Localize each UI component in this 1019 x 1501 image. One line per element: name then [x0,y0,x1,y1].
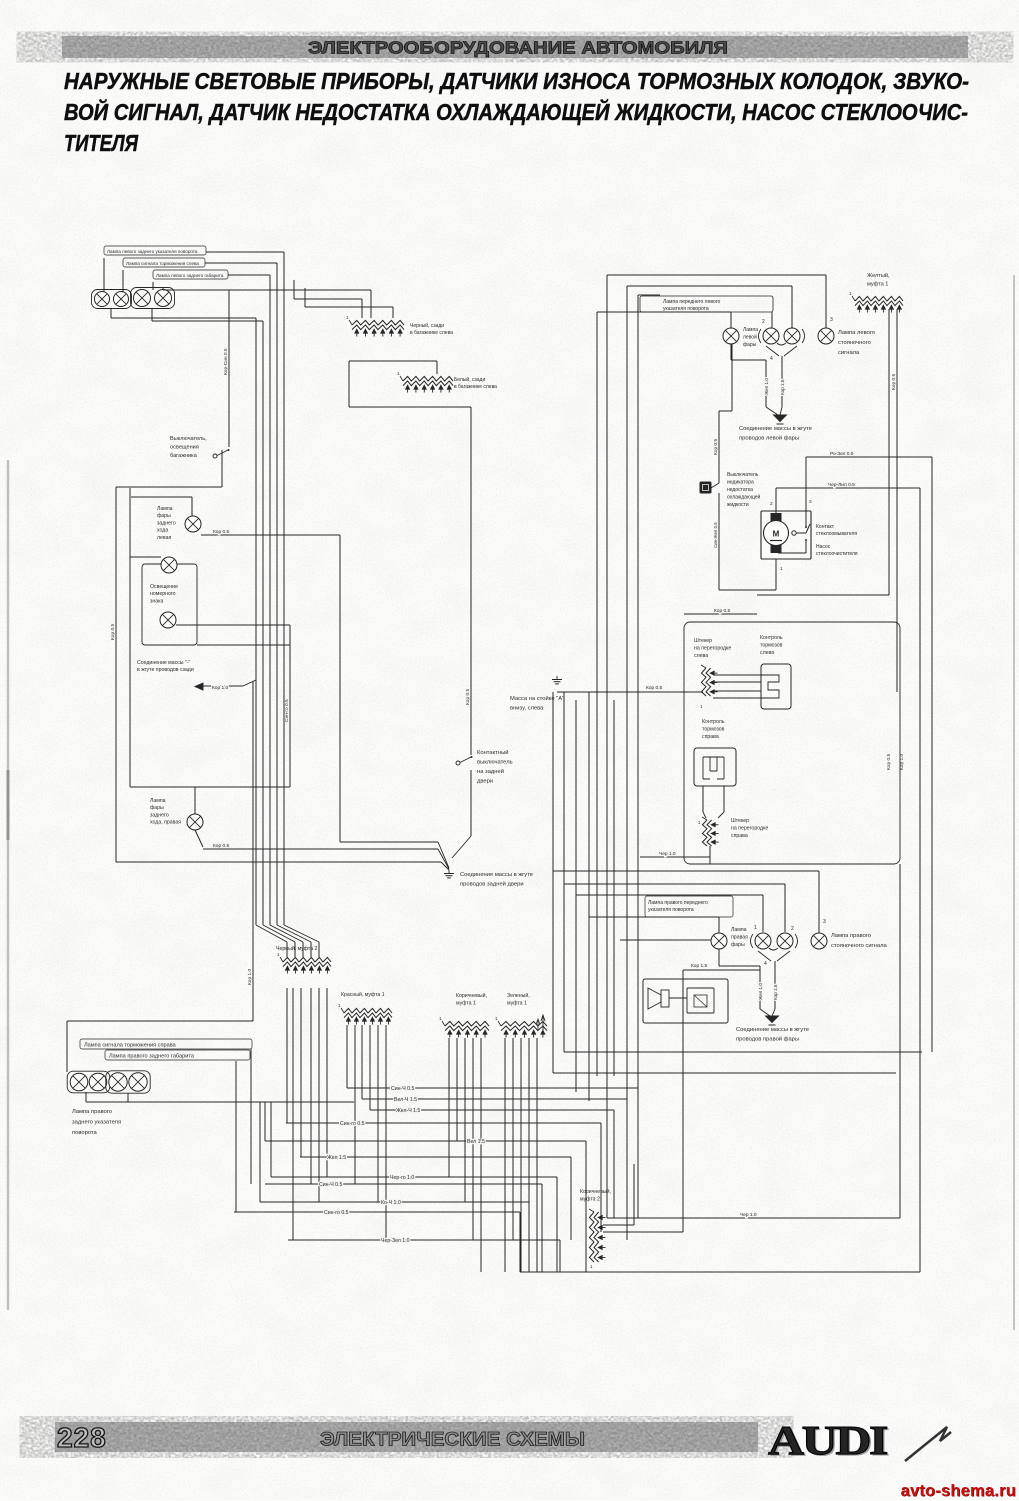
svg-text:Лампа: Лампа [743,327,758,333]
svg-text:заднего: заднего [157,520,176,526]
svg-text:жидкости: жидкости [727,502,749,508]
svg-text:3: 3 [830,317,833,323]
svg-text:поворота: поворота [72,1130,98,1136]
svg-text:стояночного: стояночного [838,340,871,346]
svg-text:фары: фары [731,942,745,948]
svg-text:Лампа сигнала торможения справ: Лампа сигнала торможения справа [84,1043,177,1049]
svg-text:1: 1 [780,566,783,572]
svg-text:Ко-Ч 1.0: Ко-Ч 1.0 [381,1200,401,1206]
svg-text:фары: фары [150,805,164,811]
svg-text:справа: справа [731,833,748,839]
svg-text:Кор 0.5: Кор 0.5 [646,685,662,691]
svg-text:заднего указателя: заднего указателя [72,1120,121,1126]
svg-text:Черный, сзади: Черный, сзади [410,322,444,329]
svg-text:Лампа правого заднего габарита: Лампа правого заднего габарита [109,1054,195,1060]
svg-text:Син-Ч 0.5: Син-Ч 0.5 [319,1182,342,1188]
svg-text:номерного: номерного [150,591,176,597]
svg-text:на перегородке: на перегородке [731,826,768,832]
svg-text:Лампа: Лампа [731,927,747,933]
svg-text:Кор 1.0: Кор 1.0 [247,969,253,985]
svg-text:Кор 0.5: Кор 0.5 [886,754,892,770]
svg-text:в багажнике слева: в багажнике слева [410,330,453,336]
svg-text:Красный, муфта 1: Красный, муфта 1 [341,991,385,998]
svg-text:Кор 0.5: Кор 0.5 [714,608,730,614]
svg-text:2: 2 [791,926,794,932]
svg-text:на перегородке: на перегородке [694,646,731,652]
svg-text:левая: левая [157,535,171,541]
svg-text:Желтый,: Желтый, [867,272,890,279]
svg-text:стояночного сигнала: стояночного сигнала [831,943,887,949]
svg-text:4: 4 [764,961,767,967]
svg-text:Штекер: Штекер [731,818,749,824]
svg-text:Лампа левого заднего указателя: Лампа левого заднего указателя поворота [107,249,198,254]
svg-text:левой: левой [743,334,757,341]
svg-text:справа: справа [702,734,719,740]
svg-text:Соединение массы в жгуте: Соединение массы в жгуте [739,426,812,432]
svg-text:фары: фары [743,342,757,348]
svg-text:Белый, сзади: Белый, сзади [454,376,485,383]
svg-text:Вел 1.5: Вел 1.5 [467,1139,485,1145]
svg-text:хода, правая: хода, правая [150,820,181,826]
svg-text:ТИТЕЛЯ: ТИТЕЛЯ [64,130,139,156]
svg-text:Кор 0.5: Кор 0.5 [213,529,229,535]
svg-text:сигнала: сигнала [838,350,860,356]
svg-text:Выключатель: Выключатель [727,472,759,478]
svg-text:Ро-Зел 0.5: Ро-Зел 0.5 [830,451,854,457]
svg-text:Лампа правого: Лампа правого [72,1109,112,1115]
svg-text:Масса на стойке "А": Масса на стойке "А" [510,695,564,702]
svg-text:2: 2 [770,501,773,507]
svg-text:Контроль: Контроль [702,719,725,725]
svg-text:Насос: Насос [816,544,831,550]
svg-text:выключатель: выключатель [477,760,513,766]
svg-text:Жел 1.0: Жел 1.0 [764,378,769,395]
svg-text:2: 2 [762,319,765,325]
svg-text:в багажнике слева: в багажнике слева [454,384,497,390]
svg-text:Чер-Зел 1.0: Чер-Зел 1.0 [381,1238,410,1244]
svg-text:стеклоомывателя: стеклоомывателя [816,531,857,537]
svg-text:багажника: багажника [170,453,198,459]
svg-text:муфта 1: муфта 1 [507,1001,527,1007]
svg-text:Лампа правого: Лампа правого [831,933,871,939]
svg-text:двери: двери [477,779,493,785]
svg-text:Син-го 0.5: Син-го 0.5 [284,699,290,722]
svg-text:недостатка: недостатка [727,487,753,493]
svg-text:M: M [773,530,780,539]
svg-text:заднего: заднего [150,812,169,818]
svg-text:Кор 0.5: Кор 0.5 [465,689,471,705]
svg-text:муфта 1: муфта 1 [867,282,888,288]
svg-text:указателя поворота: указателя поворота [648,907,694,913]
svg-text:Син-Жел 0.5: Син-Жел 0.5 [713,522,718,548]
svg-text:НАРУЖНЫЕ СВЕТОВЫЕ ПРИБОРЫ, ДАТ: НАРУЖНЫЕ СВЕТОВЫЕ ПРИБОРЫ, ДАТЧИКИ ИЗНОС… [64,68,969,94]
svg-text:Лампа левого заднего габарита: Лампа левого заднего габарита [156,273,224,278]
svg-text:3: 3 [809,499,812,505]
svg-text:Лампа правого переднего: Лампа правого переднего [648,900,708,906]
svg-text:правая: правая [731,935,748,941]
svg-text:муфта 1: муфта 1 [456,1001,476,1007]
svg-text:Зеленый,: Зеленый, [507,992,530,999]
svg-text:знака: знака [150,598,164,604]
svg-text:освещения: освещения [170,445,199,451]
svg-text:Лампа: Лампа [157,506,173,512]
svg-text:Син-Ч 0.5: Син-Ч 0.5 [391,1086,414,1092]
svg-text:Чер 1.0: Чер 1.0 [659,851,676,857]
svg-text:проводов левой фары: проводов левой фары [739,435,799,442]
svg-text:в жгуте проводов сзади: в жгуте проводов сзади [137,667,194,673]
svg-text:стеклоочистителя: стеклоочистителя [816,551,858,557]
svg-text:Кор 0.5: Кор 0.5 [110,624,116,640]
svg-text:1: 1 [754,925,757,931]
svg-text:Контроль: Контроль [760,635,783,641]
svg-text:3: 3 [823,919,826,925]
svg-text:Вел-Ч 1.5: Вел-Ч 1.5 [394,1097,417,1103]
svg-text:тормозов: тормозов [702,727,725,733]
svg-text:Соединение массы в жгуте: Соединение массы в жгуте [736,1027,809,1033]
svg-text:Лампа переднего левого: Лампа переднего левого [663,299,720,305]
svg-text:Кор 1.5: Кор 1.5 [780,379,785,395]
svg-text:на задней: на задней [477,768,504,775]
svg-text:Кор 1.5: Кор 1.5 [691,963,707,969]
svg-text:Жел-Ч 1.5: Жел-Ч 1.5 [396,1108,420,1114]
svg-text:Выключатель,: Выключатель, [170,436,207,442]
svg-text:тормозов: тормозов [760,643,783,649]
svg-text:Лампа: Лампа [150,798,166,804]
svg-text:Син-го 0.5: Син-го 0.5 [340,1121,365,1127]
svg-text:Кор 0.5: Кор 0.5 [213,843,229,849]
svg-text:указателя поворота: указателя поворота [663,306,709,312]
svg-text:Освещение: Освещение [150,584,178,590]
svg-text:Чер-Лил 0.5: Чер-Лил 0.5 [828,482,855,488]
svg-text:Лампа сигнала торможения слева: Лампа сигнала торможения слева [126,261,199,266]
svg-text:проводов правой фары: проводов правой фары [736,1036,799,1043]
svg-text:внизу, слева: внизу, слева [510,706,544,712]
svg-text:Соединение массы в жгуте: Соединение массы в жгуте [460,872,533,878]
svg-text:Коричневый,: Коричневый, [580,1188,611,1195]
svg-text:Контактный: Контактный [477,749,508,756]
svg-text:индикатора: индикатора [727,480,754,486]
svg-text:фары: фары [157,513,171,519]
svg-text:Жел 1.0: Жел 1.0 [758,983,763,1000]
svg-text:Син-го 0.5: Син-го 0.5 [324,1210,349,1216]
svg-text:муфта 2: муфта 2 [580,1197,600,1203]
svg-text:Чер-го 1.0: Чер-го 1.0 [390,1175,414,1181]
svg-text:слева: слева [694,653,708,659]
svg-text:Кор 0.5: Кор 0.5 [713,439,719,455]
svg-text:Кор 1.0: Кор 1.0 [212,685,228,691]
svg-text:охлаждающей: охлаждающей [727,494,761,501]
svg-text:слева: слева [760,650,774,656]
svg-text:Жел 1.5: Жел 1.5 [327,1155,346,1161]
svg-text:Штекер: Штекер [694,638,712,644]
svg-text:Соединение массы "-": Соединение массы "-" [137,660,191,666]
svg-text:Кор 1.5: Кор 1.5 [773,984,778,1000]
svg-text:4: 4 [770,356,773,362]
svg-text:Чер 1.0: Чер 1.0 [740,1212,757,1218]
svg-text:Кор 1.0: Кор 1.0 [899,754,905,770]
svg-text:Лампа левого: Лампа левого [838,330,875,336]
svg-text:Коричневый,: Коричневый, [456,992,487,999]
svg-text:Контакт: Контакт [816,524,835,530]
svg-text:Кор 0.5: Кор 0.5 [891,374,897,390]
svg-text:проводов задней двери: проводов задней двери [460,881,524,888]
svg-text:ВОЙ СИГНАЛ, ДАТЧИК НЕДОСТАТКА: ВОЙ СИГНАЛ, ДАТЧИК НЕДОСТАТКА ОХЛАЖДАЮЩЕ… [64,97,968,125]
svg-text:Кор-Син 0.5: Кор-Син 0.5 [223,348,229,375]
svg-text:хода: хода [157,528,168,534]
